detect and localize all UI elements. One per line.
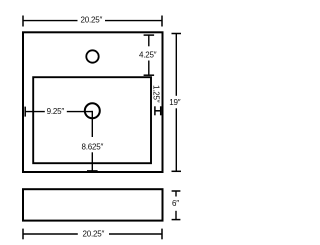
svg-text:20.25″: 20.25″ bbox=[82, 229, 104, 238]
dim 20.25 bottom: right tick bbox=[161, 229, 163, 240]
dim 20.25 top: line left segment bbox=[23, 20, 78, 22]
dim 4.25: stem lower bbox=[148, 61, 150, 76]
dim 9.25: line left segment bbox=[25, 111, 45, 113]
dim 20.25 bottom: line left segment bbox=[23, 233, 78, 235]
dim 20.25 bottom: line right segment bbox=[109, 233, 162, 235]
dim 1.25: right tick bbox=[160, 106, 162, 115]
svg-text:4.25″: 4.25″ bbox=[139, 51, 157, 60]
dim 8.625: bottom tick bbox=[87, 170, 98, 172]
dim 20.25 top: right tick bbox=[161, 16, 163, 27]
drain hole bbox=[85, 103, 100, 118]
dim 19: bottom tick bbox=[172, 170, 182, 172]
basin (inner rect) bbox=[33, 77, 151, 163]
svg-text:8.625″: 8.625″ bbox=[81, 143, 103, 152]
dim 20.25 top: line right segment bbox=[105, 20, 162, 22]
dim 6: bottom tick bbox=[172, 219, 181, 221]
dim 1.25: bar bbox=[155, 110, 161, 112]
dim 9.25: line right segment bbox=[67, 111, 93, 113]
dim 4.25: bottom tick bbox=[144, 74, 155, 76]
sink outer rim (top view) bbox=[23, 32, 163, 172]
dim 20.25 top: left tick bbox=[22, 16, 24, 27]
dim 1.25: left tick bbox=[154, 106, 156, 115]
dim 4.25: top tick bbox=[144, 34, 155, 36]
dim 8.625: stem lower bbox=[91, 152, 93, 171]
svg-text:20.25″: 20.25″ bbox=[80, 16, 102, 25]
dim 4.25: stem upper bbox=[148, 35, 150, 46]
dim 6: stem lower bbox=[175, 211, 177, 220]
svg-text:1.25″: 1.25″ bbox=[152, 85, 161, 103]
dim 9.25: left tick bbox=[24, 107, 26, 117]
dim 20.25 bottom: left tick bbox=[22, 229, 24, 240]
svg-text:19″: 19″ bbox=[169, 98, 180, 107]
dim 6: top tick bbox=[172, 190, 181, 192]
dim 19: stem lower bbox=[175, 108, 177, 171]
svg-text:9.25″: 9.25″ bbox=[47, 107, 65, 116]
dim 19: stem upper bbox=[175, 34, 177, 96]
dim 8.625: stem upper bbox=[91, 111, 93, 137]
svg-text:6″: 6″ bbox=[172, 199, 179, 208]
faucet hole bbox=[86, 50, 98, 62]
sink side view bbox=[23, 189, 163, 220]
dim 19: top tick bbox=[172, 33, 182, 35]
dim 6: stem upper bbox=[175, 191, 177, 197]
